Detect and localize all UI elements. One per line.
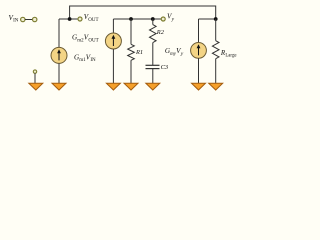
svg-text:Vy: Vy [167,12,175,22]
wire CS1 top [58,19,60,48]
wire RLarge bottom [215,59,217,83]
resistor R2 [150,25,157,43]
current source CS3 GmyVy [191,43,207,59]
terminal VIN left [21,17,25,21]
svg-text:R1: R1 [135,49,143,56]
ground G6 [192,83,206,90]
current source CS1 Gm1VIN [51,47,67,63]
wire CS2 bottom [112,49,114,83]
ground G7 [209,83,223,90]
wire R2 top [152,19,154,25]
wire R1 top [130,19,132,44]
terminal VOUT [78,17,82,21]
resistor RLarge [212,41,219,59]
wire C3 bottom [152,69,154,84]
ground G1 [29,83,43,90]
wire VIN link [25,19,33,21]
wire Vy node horizontal [113,18,161,20]
wire CS3 top [198,19,200,43]
wire VOUT node horizontal [59,18,78,20]
current source CS2 Gm2VOUT [105,33,121,49]
terminal grounded input return [33,70,36,73]
wire right section horizontal [199,18,216,20]
wire CS1 bottom [58,63,60,83]
wire R2 to C3 [152,43,154,66]
terminal Vy [161,17,165,21]
wire CS3 bottom [198,58,200,83]
terminal VIN right [33,17,37,21]
capacitor C3 [146,65,160,68]
wire top rail VOUT [70,6,216,19]
resistor R1 [128,44,135,60]
svg-text:RLarge: RLarge [220,49,237,59]
wire RLarge top [215,19,217,41]
wire R1 bottom [130,60,132,83]
ground G5 [146,83,160,90]
svg-text:GmyVy: GmyVy [165,47,184,57]
ground G4 [124,83,138,90]
svg-text:VIN: VIN [9,14,19,24]
svg-text:Gm1VIN: Gm1VIN [74,53,96,63]
junction dot R1 [129,17,133,21]
svg-text:Gm2VOUT: Gm2VOUT [72,34,99,44]
svg-text:R2: R2 [156,29,165,36]
ground G2 [52,83,66,90]
wire terminal to ground [34,73,36,83]
ground G3 [106,83,120,90]
junction dot R2 [151,17,155,21]
svg-text:VOUT: VOUT [84,13,99,23]
junction dot VOUT [68,17,72,21]
svg-text:C3: C3 [161,64,168,71]
junction dot RLarge [214,17,218,21]
wire CS2 top [112,19,114,33]
